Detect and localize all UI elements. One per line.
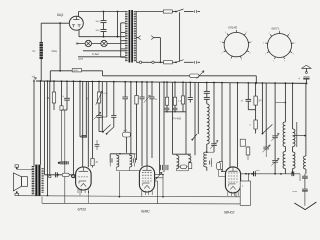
svg-text:6: 6 [246, 32, 247, 34]
svg-text:8: 8 [293, 53, 294, 55]
svg-text:6к4Ц: 6к4Ц [52, 51, 58, 53]
svg-text:1: 1 [230, 60, 231, 62]
svg-text:7: 7 [294, 43, 295, 45]
svg-text:7: 7 [251, 42, 252, 44]
svg-text:3: 3 [263, 43, 264, 45]
svg-text:6П14П: 6П14П [228, 26, 237, 30]
svg-text:2: 2 [265, 53, 266, 55]
svg-text:писк: писк [256, 170, 260, 172]
svg-text:2: 2 [221, 53, 222, 55]
svg-text:3: 3 [220, 42, 221, 44]
svg-text:5П: 5П [259, 101, 262, 103]
svg-text:6,3в2: 6,3в2 [92, 52, 99, 56]
svg-text:9: 9 [284, 60, 285, 62]
svg-text:ЦЛ0б: ЦЛ0б [73, 70, 79, 72]
svg-text:6ГЗ: 6ГЗ [79, 58, 84, 61]
svg-text:6И8С: 6И8С [141, 210, 150, 214]
svg-text:6И1П: 6И1П [272, 27, 279, 31]
svg-text:1: 1 [273, 60, 274, 62]
svg-text:ПЧ-465: ПЧ-465 [172, 117, 182, 121]
svg-text:6: 6 [289, 33, 290, 35]
svg-text:9: 9 [241, 60, 242, 62]
svg-text:6П33: 6П33 [78, 208, 86, 212]
svg-text:пьез: пьез [293, 191, 298, 193]
svg-text:6ВЧ02: 6ВЧ02 [224, 210, 234, 214]
svg-text:4: 4 [225, 32, 226, 34]
svg-text:8: 8 [250, 53, 251, 55]
svg-text:4: 4 [268, 33, 269, 35]
svg-text:5: 5 [279, 29, 280, 31]
svg-text:6Ц3: 6Ц3 [57, 13, 63, 17]
